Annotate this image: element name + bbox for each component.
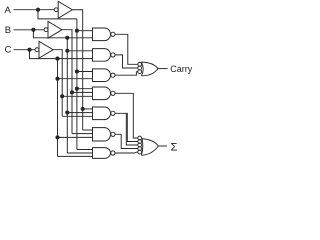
nand gate G1 body: [93, 28, 111, 41]
node B junction dot: [31, 28, 35, 32]
sum OR gate input bubble 3: [138, 143, 142, 147]
nand gate G3 body: [93, 69, 111, 82]
nand gate G6 output bubble: [111, 132, 115, 136]
wire A input row: [14, 9, 55, 11]
nand gate G6 body: [93, 128, 111, 141]
nand gate G4 body: [93, 87, 111, 100]
sum OR gate input bubble 1: [138, 136, 142, 140]
wire sum output: [159, 145, 167, 147]
inverter U3 input bubble: [35, 48, 39, 52]
wire NAND6 input 3: [58, 136, 93, 138]
nand gate G5 body: [93, 107, 111, 120]
node dot C to NAND6 input 3: [55, 135, 59, 139]
wire B' from U2 output to column B': [62, 30, 72, 134]
wire B end to NAND7 input 2: [67, 152, 93, 154]
carry OR gate input bubble 1: [138, 62, 142, 66]
node A junction dot: [36, 8, 40, 12]
node dot A to NAND3 input 1: [75, 69, 79, 73]
nand gate G4 output bubble: [111, 91, 115, 95]
svg-text:B: B: [5, 25, 11, 36]
node dot B to NAND5 input 2: [65, 111, 69, 115]
wire NAND3 input 2: [58, 78, 93, 80]
wire NAND4 input 2: [72, 91, 93, 93]
node C column tap dot: [55, 57, 59, 61]
wire NAND1 input 1: [77, 30, 93, 32]
wire branch to sum gate input 3: [126, 113, 138, 145]
carry OR gate input bubble 2: [138, 66, 142, 70]
wire G6 output to sum gate input 4: [115, 134, 138, 148]
wire C input row: [14, 49, 36, 51]
wire C' from U3 output to column C': [53, 50, 62, 117]
node dot C' to NAND4 input 3: [60, 94, 64, 98]
wire NAND5 input 1: [83, 108, 93, 110]
wire A end to NAND7 input 1: [77, 149, 93, 151]
node B column tap dot: [65, 36, 69, 40]
wire B input row: [14, 29, 45, 31]
wire NAND2 input 1: [67, 50, 93, 52]
node dot B to NAND2 input 1: [65, 49, 69, 53]
nand gate G7 body: [93, 148, 111, 159]
wire G1 output to carry gate input 1: [115, 34, 138, 64]
wire G2 output to carry gate input 2: [115, 55, 138, 68]
wire C end to NAND7 input 3: [58, 155, 93, 157]
wire column B vertical: [66, 38, 68, 153]
wire G3 output to carry gate input 3: [115, 72, 138, 76]
wire NAND5 input 2: [67, 112, 93, 114]
inverter U3 triangle: [39, 41, 53, 58]
node dot A to NAND1 input 1: [75, 29, 79, 33]
node dot A to NAND4 input 1: [75, 87, 79, 91]
wire A' end to NAND6 input 1: [83, 129, 93, 131]
wire NAND4 input 3: [62, 95, 93, 97]
nand gate G2 body: [93, 49, 111, 62]
svg-text:A: A: [5, 5, 12, 16]
sum OR gate input bubble 4: [138, 147, 142, 151]
inverter U2 triangle: [48, 21, 62, 38]
svg-text:C: C: [5, 45, 12, 56]
wire A branch down and right to column A: [38, 10, 77, 19]
wire G4 output to sum gate input 1: [115, 93, 138, 138]
wire column C vertical: [57, 59, 59, 157]
node dot A' to NAND5 input 1: [81, 107, 85, 111]
inverter U1 input bubble: [54, 8, 58, 12]
nand gate G2 output bubble: [111, 53, 115, 57]
wire NAND3 input 1: [77, 71, 93, 73]
sum OR gate input bubble 5: [138, 150, 142, 154]
wire G7 output to sum gate input 5: [115, 151, 138, 154]
sum OR gate input bubble 2: [138, 140, 142, 144]
nand gate G3 output bubble: [111, 73, 115, 77]
wire G5 output to sum gate input 2: [115, 113, 138, 141]
carry OR gate U4 body: [141, 62, 158, 76]
wire B branch down then right (NAND1 input 2 line): [33, 30, 93, 38]
nand gate G7 output bubble: [111, 151, 115, 155]
inverter U1 triangle: [58, 1, 72, 18]
sum OR gate U5 body: [141, 139, 158, 156]
wire A' from U1 output to column A': [72, 10, 82, 130]
wire C branch down then right (NAND2 input 2 line): [30, 50, 93, 59]
svg-text:Carry: Carry: [170, 64, 192, 74]
nand gate G1 output bubble: [111, 32, 115, 36]
svg-text:Σ: Σ: [171, 142, 178, 154]
wire NAND4 input 1: [77, 88, 93, 90]
node dot C to NAND3 input 2: [55, 77, 59, 81]
inverter U2 input bubble: [44, 28, 48, 32]
nand gate G5 output bubble: [111, 111, 115, 115]
wire C' end to NAND5 input 3: [62, 115, 93, 117]
wire carry output: [158, 68, 168, 70]
wire column A vertical: [76, 19, 78, 150]
node dot B' to NAND4 input 2: [70, 90, 74, 94]
node C junction dot: [27, 48, 31, 52]
wire B' end to NAND6 input 2: [72, 133, 93, 135]
carry OR gate input bubble 3: [138, 70, 142, 74]
